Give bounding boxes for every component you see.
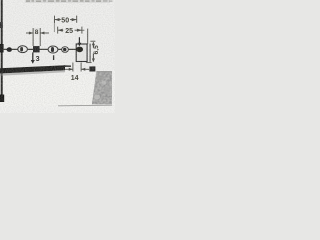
faint bottom rule — [58, 104, 112, 107]
dark band of capsule B2 — [20, 47, 23, 52]
top cut-off text speckle strip — [25, 0, 113, 3]
dim 25 — [58, 27, 88, 45]
dark band of capsule B3 — [51, 47, 54, 52]
dark capsule inside body — [76, 47, 83, 53]
value label 8 — [34, 28, 39, 35]
bead B1 (filled) — [7, 47, 12, 52]
dark block on wire (under 8-dim) — [33, 46, 40, 52]
heavy bottom-left rule — [0, 65, 65, 73]
dim 50 — [54, 16, 76, 32]
down arrow onto capsule — [78, 37, 80, 43]
tick below capsule B3 — [53, 55, 55, 60]
dark centre of oval B4 — [63, 48, 66, 51]
capsule B2 (outline with dark band) — [18, 46, 28, 53]
dim 14 (below body) — [63, 63, 95, 72]
paper background — [0, 0, 115, 113]
outer vertical line of body — [89, 44, 91, 62]
wire (component axis) — [3, 48, 77, 50]
capsule B3 (outline with dark band) — [48, 46, 58, 53]
left page-fold bar — [1, 0, 3, 102]
dim 6,5 (right, vertical) — [86, 41, 95, 62]
dim 8 — [26, 28, 49, 46]
overall grain — [0, 0, 115, 113]
component body rectangle — [76, 44, 87, 62]
left down arrow with 3 — [32, 52, 34, 60]
small oval B4 (dark centre) — [62, 47, 69, 53]
photo block bottom right — [91, 70, 113, 105]
